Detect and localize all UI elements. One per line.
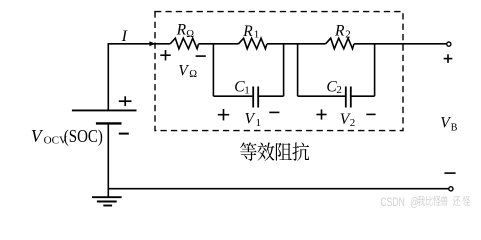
svg-text:R: R	[242, 23, 253, 40]
terminal: positive output (open circle)	[447, 42, 451, 46]
terminal: negative output (open circle)	[449, 187, 453, 191]
battery + sign	[119, 100, 132, 102]
resistor R_omega (ohmic resistance)	[170, 38, 198, 49]
polarity - for V_omega	[196, 55, 206, 57]
svg-text:2: 2	[336, 84, 342, 96]
svg-text:V: V	[31, 126, 44, 146]
svg-text:1: 1	[244, 84, 250, 96]
svg-text:I: I	[121, 28, 128, 45]
wire: between R1 and R2 zigzags	[267, 43, 326, 45]
polarity + for V1	[218, 114, 229, 116]
dashed box: equivalent impedance boundary	[155, 12, 403, 131]
resistor R1	[239, 38, 267, 49]
polarity - for V2	[366, 113, 375, 115]
wire: C1 branch left	[213, 95, 252, 97]
svg-text:@: @	[410, 197, 419, 210]
capacitor C1 plates	[252, 87, 254, 108]
polarity + for V2	[316, 114, 326, 116]
watermark CSDN	[380, 196, 470, 210]
wire: vertical from battery - plate down to ground	[107, 123, 109, 197]
svg-text:1: 1	[256, 117, 262, 129]
wire: from R2 to positive output terminal	[354, 43, 447, 45]
wire: vertical from top wire down to battery + plate	[107, 43, 109, 110]
polarity - for V1	[269, 111, 279, 113]
resistor R2	[326, 38, 354, 49]
wire: bottom return wire to negative terminal	[108, 188, 449, 190]
svg-text:V: V	[440, 115, 451, 132]
polarity + at output	[444, 58, 453, 60]
svg-text:V: V	[245, 111, 256, 128]
svg-text:B: B	[451, 122, 458, 133]
node: R1C1 block left vertical	[212, 44, 214, 96]
battery - sign	[119, 133, 129, 135]
ground symbol	[92, 196, 122, 198]
svg-text:R: R	[176, 22, 187, 39]
polarity - at output	[444, 172, 455, 174]
wire: between R_omega and R1 block	[199, 43, 239, 45]
battery negative short plate	[96, 122, 122, 124]
wire: C2 branch right	[351, 95, 374, 97]
polarity + for V_omega	[160, 54, 170, 56]
svg-text:(SOC): (SOC)	[64, 126, 103, 147]
svg-text:1: 1	[254, 29, 259, 41]
svg-text:Ω: Ω	[189, 69, 197, 80]
current arrow I	[149, 41, 155, 46]
svg-text:Ω: Ω	[186, 29, 194, 40]
node: R2C2 block left vertical	[297, 44, 299, 96]
node: R1C1 block right vertical	[283, 44, 285, 96]
capacitor C2 plates	[345, 87, 347, 108]
node: R2C2 block right vertical	[374, 44, 376, 96]
svg-text:2: 2	[345, 29, 351, 41]
caption: dengxiao zukang (equivalent impedance)	[240, 142, 309, 160]
wire: top-left horizontal from battery to R_omega	[108, 43, 170, 45]
svg-text:V: V	[178, 63, 189, 80]
battery positive long plate	[72, 109, 137, 111]
wire: C2 branch left	[298, 95, 345, 97]
svg-text:2: 2	[350, 117, 356, 129]
wire: C1 branch right	[259, 95, 284, 97]
svg-text:R: R	[334, 23, 345, 40]
svg-text:CSDN: CSDN	[380, 197, 404, 210]
